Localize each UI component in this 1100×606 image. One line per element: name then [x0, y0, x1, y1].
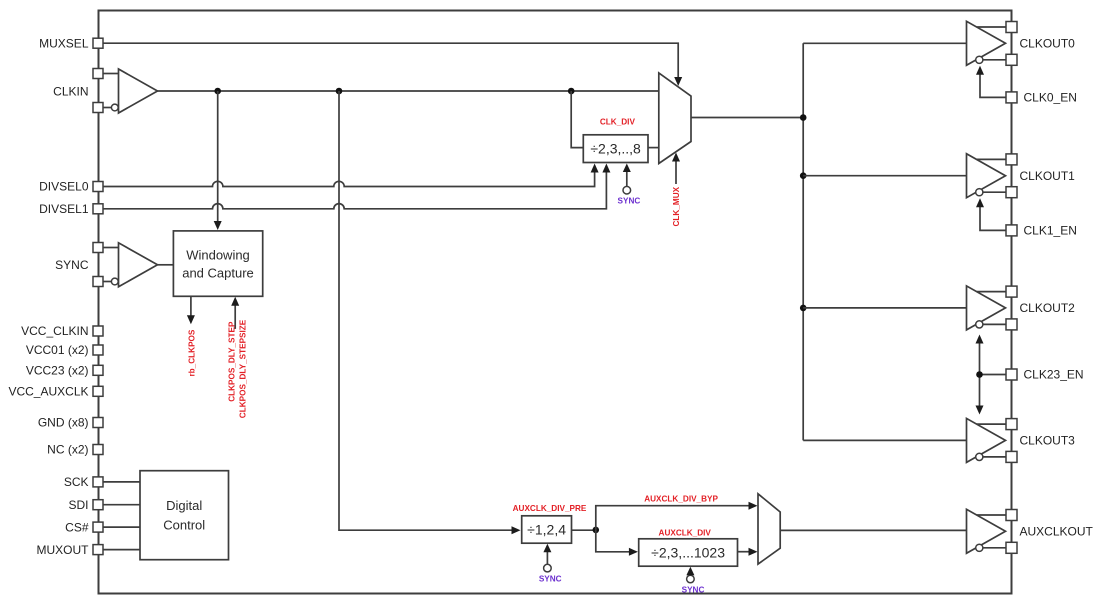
svg-text:CLKOUT0: CLKOUT0 — [1020, 36, 1076, 50]
wire AUXCLK_DIV output to mux — [738, 548, 758, 556]
pin VCC01 (x2) — [26, 343, 103, 357]
pin CLKOUT3 negative — [1006, 434, 1075, 463]
pin VCC23 (x2) — [26, 364, 103, 378]
wire drop to Windowing and Capture — [214, 91, 222, 230]
junction distribution at CLKOUT2 — [800, 305, 807, 312]
svg-text:Control: Control — [163, 518, 205, 533]
svg-text:CLKOUT2: CLKOUT2 — [1020, 301, 1076, 315]
input arrow CLKPOS_DLY_STEP — [231, 297, 239, 329]
svg-text:SYNC: SYNC — [55, 258, 89, 272]
svg-text:CLK_MUX: CLK_MUX — [672, 186, 681, 226]
svg-text:÷2,3,...1023: ÷2,3,...1023 — [651, 544, 725, 560]
svg-text:÷1,2,4: ÷1,2,4 — [527, 521, 566, 537]
output arrow rb_CLKPOS — [187, 296, 195, 324]
svg-text:CLK1_EN: CLK1_EN — [1024, 224, 1077, 238]
pin VCC_AUXCLK — [8, 385, 103, 399]
pin CLKOUT3 positive — [1006, 419, 1017, 430]
pin GND (x8) — [38, 416, 103, 430]
input buffer CLKIN — [103, 69, 158, 113]
wire to CLKOUT0 buffer — [803, 42, 966, 44]
junction on CLKIN net at divider drop — [568, 88, 575, 95]
wire DIVSEL1 with hops — [103, 164, 610, 209]
svg-text:VCC_AUXCLK: VCC_AUXCLK — [8, 385, 88, 399]
svg-text:AUXCLKOUT: AUXCLKOUT — [1020, 524, 1094, 538]
wire to CLKOUT2 buffer — [803, 307, 966, 309]
pin MUXOUT — [37, 543, 104, 557]
sync input of AUXCLK_DIV — [686, 567, 694, 583]
svg-text:MUXSEL: MUXSEL — [39, 36, 89, 50]
svg-text:÷2,3,..,8: ÷2,3,..,8 — [590, 141, 641, 157]
svg-text:SYNC: SYNC — [539, 574, 562, 583]
wire CS# — [103, 526, 140, 528]
wire predivider output — [572, 529, 596, 531]
svg-text:AUXCLK_DIV_PRE: AUXCLK_DIV_PRE — [513, 504, 587, 513]
wire SYNC buffer to Windowing block — [158, 264, 174, 266]
pin CLKOUT2 positive — [1006, 286, 1017, 297]
wire DIVSEL0 with hops — [103, 164, 599, 187]
pin VCC_CLKIN — [21, 324, 103, 338]
pin DIVSEL1 — [39, 202, 103, 216]
output buffer CLKOUT3 — [967, 418, 1007, 462]
wire clock distribution vertical — [802, 43, 804, 440]
svg-text:VCC_CLKIN: VCC_CLKIN — [21, 324, 88, 338]
svg-text:CLKOUT1: CLKOUT1 — [1020, 169, 1076, 183]
wire CLKIN to divider CLK_DIV — [571, 91, 583, 148]
pin SDI — [68, 498, 103, 512]
wire aux mux output to AUXCLKOUT buffer — [780, 529, 966, 531]
svg-text:SDI: SDI — [68, 498, 88, 512]
svg-text:Windowing: Windowing — [186, 247, 250, 262]
svg-text:and Capture: and Capture — [182, 266, 254, 281]
enable arrow CLK1_EN — [976, 198, 1006, 230]
sync input of AUXCLK_DIV_PRE — [543, 544, 551, 572]
wire CLKIN net — [158, 90, 659, 92]
pin AUXCLKOUT positive — [1006, 510, 1017, 521]
pin CLK1_EN — [1006, 224, 1077, 238]
input buffer SYNC — [103, 243, 158, 287]
junction distribution at CLKOUT1 — [800, 172, 807, 179]
pin CLKOUT2 negative — [1006, 301, 1075, 330]
svg-text:NC (x2): NC (x2) — [47, 443, 88, 457]
svg-text:GND (x8): GND (x8) — [38, 416, 89, 430]
pin CLK23_EN — [1006, 368, 1084, 382]
svg-text:CS#: CS# — [65, 520, 89, 534]
wire divider output to mux — [648, 147, 659, 149]
output buffer CLKOUT1 — [967, 154, 1007, 198]
divider CLK_DIV — [583, 135, 648, 163]
pin CS# — [65, 520, 103, 534]
pin SYNC negative — [55, 258, 103, 287]
pin CLKIN positive — [93, 69, 103, 79]
pin DIVSEL0 — [39, 180, 103, 194]
mux AUXCLK output select — [758, 494, 780, 564]
wire SDI — [103, 504, 140, 506]
wire SCK — [103, 481, 140, 483]
svg-text:rb_CLKPOS: rb_CLKPOS — [188, 329, 197, 376]
pin SYNC positive — [93, 243, 103, 253]
pin CLKIN negative — [53, 85, 103, 113]
output buffer CLKOUT2 — [967, 286, 1007, 330]
control arrow CLK_MUX — [672, 153, 680, 185]
svg-text:CLKOUT3: CLKOUT3 — [1020, 434, 1076, 448]
svg-text:CLK_DIV: CLK_DIV — [600, 118, 636, 127]
chip outline border — [99, 11, 1012, 594]
junction on CLKIN net at windowing drop — [214, 88, 221, 95]
sync input of CLK_DIV — [623, 164, 631, 195]
pin CLK0_EN — [1006, 91, 1077, 105]
svg-text:MUXOUT: MUXOUT — [37, 543, 90, 557]
divider AUXCLK_DIV_PRE — [522, 516, 572, 543]
pin NC (x2) — [47, 443, 103, 457]
svg-text:VCC23 (x2): VCC23 (x2) — [26, 364, 89, 378]
pin AUXCLKOUT negative — [1006, 524, 1094, 553]
wire to CLKOUT1 buffer — [803, 175, 966, 177]
junction on CLKIN net at auxclk drop — [336, 88, 343, 95]
wire CLK_MUX output to distribution node — [691, 117, 803, 119]
block Digital Control — [140, 471, 229, 560]
pin CLKOUT0 negative — [1006, 36, 1075, 65]
enable net CLK23_EN double arrow — [976, 335, 1007, 415]
output buffer AUXCLKOUT — [967, 509, 1007, 553]
mux CLK_MUX — [659, 73, 691, 164]
output buffer CLKOUT0 — [967, 21, 1007, 65]
svg-text:Digital: Digital — [166, 498, 202, 513]
svg-text:SYNC: SYNC — [618, 196, 641, 205]
wire to AUXCLK_DIV — [596, 530, 638, 556]
svg-text:CLK0_EN: CLK0_EN — [1024, 91, 1077, 105]
divider AUXCLK_DIV — [639, 539, 738, 566]
svg-text:CLKPOS_DLY_STEPSIZE: CLKPOS_DLY_STEPSIZE — [239, 319, 248, 418]
enable arrow CLK0_EN — [976, 66, 1006, 98]
junction predivider output — [593, 527, 600, 534]
wire MUXOUT — [103, 549, 140, 551]
pin MUXSEL — [39, 36, 103, 50]
svg-text:VCC01 (x2): VCC01 (x2) — [26, 343, 89, 357]
block Windowing and Capture — [173, 231, 262, 296]
svg-text:DIVSEL0: DIVSEL0 — [39, 180, 89, 194]
svg-text:CLK23_EN: CLK23_EN — [1024, 368, 1084, 382]
svg-text:SCK: SCK — [64, 475, 89, 489]
wire MUXSEL to CLK_MUX select — [103, 43, 682, 86]
svg-text:AUXCLK_DIV_BYP: AUXCLK_DIV_BYP — [644, 494, 718, 503]
pin CLKOUT1 positive — [1006, 154, 1017, 165]
svg-text:CLKPOS_DLY_STEP: CLKPOS_DLY_STEP — [228, 321, 237, 402]
pin CLKOUT1 negative — [1006, 169, 1075, 198]
wire drop to AUXCLK predivider — [339, 91, 521, 534]
junction distribution at mux output — [800, 114, 807, 121]
wire AUXCLK_DIV_BYP path — [596, 502, 758, 530]
svg-text:DIVSEL1: DIVSEL1 — [39, 202, 89, 216]
svg-text:CLKIN: CLKIN — [53, 85, 88, 99]
wire to CLKOUT3 buffer — [803, 439, 966, 441]
pin SCK — [64, 475, 103, 489]
svg-text:AUXCLK_DIV: AUXCLK_DIV — [659, 528, 712, 537]
svg-text:SYNC: SYNC — [682, 585, 705, 594]
pin CLKOUT0 positive — [1006, 22, 1017, 33]
